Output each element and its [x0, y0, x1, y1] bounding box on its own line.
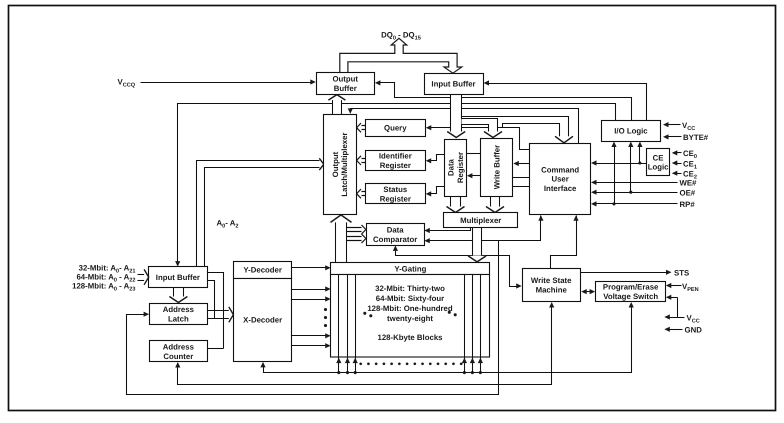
svg-text:Interface: Interface: [544, 184, 577, 193]
svg-text:Logic: Logic: [648, 162, 669, 171]
block memory array 128-Kbyte Blocks: [331, 275, 490, 373]
svg-text:Register: Register: [380, 194, 411, 203]
wire CE Logic to Command User Interface: [591, 160, 647, 165]
wire Identifier Register to Output Latch: [357, 156, 366, 165]
wire Data Register to Identifier Register: [426, 155, 445, 164]
svg-text:Machine: Machine: [536, 286, 568, 295]
net V_CC input: [663, 121, 695, 132]
label DQ0-DQ15: [381, 31, 421, 42]
net V_CCQ label: [118, 78, 136, 89]
svg-text:Address: Address: [163, 305, 195, 314]
svg-text:twenty-eight: twenty-eight: [387, 314, 433, 323]
bus Write Buffer to Multiplexer: [486, 197, 504, 213]
block Y-Decoder: [234, 262, 292, 279]
wire Input Buffer bus to Command Interface outer edge: [462, 117, 569, 138]
wire CE to I/O Logic: [637, 142, 642, 164]
bus Y-Gating to Output Latch: [331, 215, 352, 263]
wire I/O Logic to address Input Buffer: [175, 104, 615, 267]
svg-text:Y-Gating: Y-Gating: [394, 264, 426, 273]
wire V_CCQ to Output Buffer: [141, 79, 316, 84]
svg-text:Program/Erase: Program/Erase: [603, 282, 659, 291]
bus DQ0-DQ15 bidirectional: [340, 38, 462, 73]
wire RP# to I/O Logic: [611, 142, 616, 204]
wire bus branch to Output Latch top and Command Interface top: [348, 108, 579, 143]
block Data Comparator: [367, 224, 425, 246]
svg-text:32-Mbit: Thirty-two: 32-Mbit: Thirty-two: [375, 284, 445, 293]
svg-text:Register: Register: [456, 152, 465, 183]
svg-text:CE: CE: [653, 153, 664, 162]
svg-text:User: User: [551, 175, 568, 184]
bus Data Register to Multiplexer: [447, 197, 465, 213]
block X-Decoder: [234, 279, 292, 362]
net CE2 input: [672, 170, 697, 181]
wire Write State Machine to Command Interface status: [551, 215, 579, 268]
net CE1 input: [672, 159, 697, 170]
svg-text:Latch/Multiplexer: Latch/Multiplexer: [340, 132, 349, 196]
wire Command Interface to Query register: [426, 124, 560, 150]
net V_PEN input: [666, 282, 699, 293]
wire Command Interface to Data Comparator and Address Latch feedback: [127, 215, 544, 394]
svg-text:Buffer: Buffer: [334, 84, 357, 93]
ellipsis dots X-Decoder outputs: [324, 308, 327, 327]
bus Input Buffer to Write Buffer: [462, 119, 503, 138]
block Address Counter: [150, 341, 208, 362]
bus Output Latch to Output Buffer: [328, 95, 345, 115]
svg-text:Output: Output: [331, 151, 340, 177]
block Output Latch/Multiplexer: [324, 115, 357, 215]
wire Write State Machine to Address Counter rail: [175, 302, 554, 385]
label A0-A2: [217, 218, 239, 229]
svg-text:Latch: Latch: [168, 314, 189, 323]
funnel arrow into X-Decoder: [229, 307, 234, 322]
svg-text:128-Mbit: One-hundred: 128-Mbit: One-hundred: [367, 304, 453, 313]
wire I/O Logic to Input Buffer: [484, 80, 647, 120]
wire address buffer output1: [208, 273, 224, 349]
block Write Buffer: [481, 139, 513, 197]
svg-text:RP#: RP#: [680, 200, 696, 209]
svg-text:Multiplexer: Multiplexer: [460, 216, 501, 225]
svg-text:STS: STS: [674, 269, 689, 278]
wire Data Register to Status Register: [426, 187, 445, 197]
wire address latch output2: [208, 318, 230, 320]
block Y-Gating: [331, 263, 490, 275]
wire address latch output1: [208, 310, 230, 312]
svg-text:Data: Data: [387, 226, 405, 235]
bus Multiplexer to Y-Gating: [468, 228, 486, 262]
block Address Latch: [150, 304, 208, 325]
block Write State Machine: [523, 269, 581, 302]
svg-text:BYTE#: BYTE#: [683, 133, 709, 142]
wire read bus to Data Comparator lower: [347, 234, 366, 243]
wire Y-Decoder to Y-Gating: [292, 265, 331, 270]
svg-text:Register: Register: [380, 161, 411, 170]
block Program/Erase Voltage Switch: [596, 282, 666, 302]
svg-text:128-Kbyte Blocks: 128-Kbyte Blocks: [377, 333, 443, 342]
net STS output: [581, 269, 690, 278]
wire Multiplexer to Data Comparator: [424, 228, 470, 234]
block Identifier Register: [366, 151, 426, 171]
net RP# line: [591, 200, 695, 209]
wire address buffer output2: [208, 281, 215, 319]
svg-text:Comparator: Comparator: [373, 235, 417, 244]
wire program voltage rail to X-Decoder and Voltage Switch: [260, 302, 633, 374]
svg-text:X-Decoder: X-Decoder: [243, 316, 282, 325]
svg-text:OE#: OE#: [680, 188, 696, 197]
svg-text:Write State: Write State: [531, 276, 572, 285]
wire Write Buffer to Command Interface link1: [513, 177, 530, 179]
svg-text:Status: Status: [383, 185, 407, 194]
block Input Buffer: [425, 74, 484, 95]
wire Write Buffer to Command Interface link2: [513, 186, 530, 188]
svg-text:Query: Query: [384, 124, 407, 133]
wire read bus to Data Comparator upper: [347, 225, 366, 234]
net address inputs 32/64/128-Mbit: [72, 263, 149, 292]
net GND input: [664, 326, 702, 335]
wire OE# to I/O Logic: [628, 142, 633, 193]
wire Status Register to Output Latch: [357, 189, 366, 198]
block address Input Buffer: [149, 267, 208, 288]
svg-text:Write Buffer: Write Buffer: [492, 145, 501, 189]
net BYTE# input: [663, 133, 709, 142]
net CE0 input: [672, 149, 697, 160]
svg-text:Voltage Switch: Voltage Switch: [603, 292, 658, 301]
svg-text:Address: Address: [163, 342, 195, 351]
block CE Logic: [647, 149, 670, 176]
block Status Register: [366, 184, 426, 204]
svg-text:Command: Command: [541, 165, 579, 174]
svg-text:Data: Data: [447, 158, 456, 176]
wire Data Register to Write Buffer link: [467, 153, 481, 155]
wire Write Buffer to Data Register: [467, 173, 481, 178]
svg-text:Input Buffer: Input Buffer: [156, 273, 200, 282]
bus A0-A2 address buffer to Output Latch: [197, 158, 324, 267]
wire Write State Machine to Voltage Switch bidirectional: [581, 289, 595, 294]
block Multiplexer: [444, 213, 518, 228]
svg-text:Output: Output: [332, 75, 358, 84]
wire Query to Output Latch: [357, 123, 366, 132]
svg-text:Counter: Counter: [163, 352, 193, 361]
arrows block select into array bottom: [336, 358, 483, 364]
block Output Buffer: [317, 73, 375, 95]
svg-text:Y-Decoder: Y-Decoder: [243, 265, 282, 274]
svg-text:I/O Logic: I/O Logic: [614, 127, 648, 136]
bus arrow into Command User Interface: [555, 136, 573, 143]
block Command User Interface: [530, 144, 591, 215]
svg-text:Identifier: Identifier: [379, 152, 412, 161]
svg-text:Input Buffer: Input Buffer: [431, 80, 475, 89]
wire to Data Comparator bottom and Write State Machine: [393, 245, 522, 288]
net V_CC bottom input: [664, 295, 699, 324]
block I/O Logic: [602, 121, 661, 142]
block Query: [366, 120, 426, 137]
wire Command Interface to Write Buffer: [513, 161, 529, 166]
ellipsis dot row below array: [359, 362, 462, 365]
wire address counter output: [208, 348, 224, 350]
net WE# line: [591, 179, 697, 188]
svg-text:GND: GND: [685, 326, 703, 335]
block Data Register: [445, 140, 467, 197]
svg-text:64-Mbit: Sixty-four: 64-Mbit: Sixty-four: [376, 294, 444, 303]
wire I/O Logic to Output Buffer: [375, 80, 632, 120]
bus Input Buffer to Data Register: [447, 95, 465, 138]
bus address Input Buffer to Address Latch: [169, 288, 187, 303]
wires X-Decoder to memory array: [292, 286, 331, 348]
net OE# line: [591, 188, 696, 197]
